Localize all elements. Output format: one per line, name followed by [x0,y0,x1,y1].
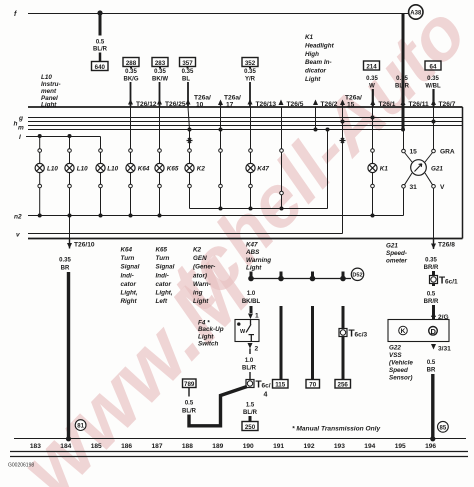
svg-text:(Gener-: (Gener- [193,264,215,271]
svg-text:K1: K1 [380,166,389,173]
instrument cluster internal area [14,107,463,239]
svg-text:G22: G22 [389,345,401,352]
svg-text:VSS: VSS [389,352,402,359]
junction n2 at L10 no2 [68,214,72,218]
svg-text:L10: L10 [47,166,58,173]
svg-text:81: 81 [77,424,84,430]
svg-text:m: m [18,125,24,132]
svg-text:Sensor): Sensor) [389,375,412,382]
bus line v [16,232,343,239]
svg-text:Left: Left [156,298,168,305]
terminal box 64 [425,61,441,70]
svg-text:K1: K1 [305,34,314,41]
terminal arrow T26/10 [67,239,95,249]
svg-text:0.35: 0.35 [366,76,378,82]
splice stub 1 [250,272,253,279]
lamp K65 symbol [155,163,179,172]
svg-text:190: 190 [243,443,254,450]
wire T26/5 column [280,107,284,209]
wire T26/11 to G21 pin 15 [403,130,405,150]
svg-text:GRA: GRA [440,149,455,156]
svg-text:cator: cator [121,281,137,288]
svg-text:K2: K2 [197,166,206,173]
svg-text:4: 4 [264,392,268,399]
lamp K2 column from T26a/10 [188,107,192,209]
terminal box 357 [180,58,196,67]
svg-text:L10: L10 [107,166,118,173]
junction link at spare pin [219,207,223,211]
spare pin column T26a/17 [219,107,223,209]
svg-text:115: 115 [275,381,286,388]
wire T26/7 to GRA pin [433,107,435,149]
lamp L10 no1 symbol [35,163,58,172]
svg-text:BL/R: BL/R [182,409,197,415]
terminal arrow T26a/17 [218,95,241,109]
svg-text:High: High [305,51,319,58]
wire 0.35 W/BL to T26/7 [425,76,441,107]
svg-text:Right: Right [121,298,138,305]
svg-text:85: 85 [440,425,447,431]
terminal arrow T26a/10 [186,95,212,109]
junction m2 at spare pin [219,128,223,132]
track baseline [14,438,466,440]
splice line to D52 [251,278,351,280]
wire 0.5 BR/R to G22 pin 2/G [424,284,439,320]
svg-text:BL/R: BL/R [93,47,108,53]
svg-text:Turn: Turn [121,255,135,262]
svg-text:0.35: 0.35 [244,69,256,75]
lamp K1 column from T26/1 [371,107,375,216]
svg-text:G00206198: G00206198 [8,463,34,469]
junction splice 3 [310,276,316,282]
G21 pin GRA [432,149,455,156]
asterisk on K2 wire [187,138,193,143]
svg-text:Turn: Turn [156,255,170,262]
svg-text:h: h [14,121,18,128]
splice stub 4 [342,272,345,279]
cluster bottom edge [28,238,463,240]
wire 0.35 BK/G to T26/12 [124,67,139,107]
svg-text:ment: ment [41,88,57,95]
wire n2 riser to pin 31 [403,188,405,216]
svg-text:BL: BL [182,76,190,82]
junction m2 at K2 [188,128,192,132]
wire 0.35 BK/W to T26/25 [152,67,168,107]
bus line l [19,134,101,141]
svg-text:cator: cator [156,281,172,288]
svg-text:V: V [440,184,445,191]
svg-text:1.0: 1.0 [245,358,254,364]
svg-text:T26/8: T26/8 [438,242,455,249]
svg-text:192: 192 [303,443,314,450]
junction on f at wire to 640 [97,10,102,15]
junction link at T26/5 [280,207,284,211]
bus line h [28,121,463,123]
svg-text:v: v [16,232,20,239]
svg-text:K: K [401,328,406,335]
svg-text:Signal: Signal [121,264,140,271]
svg-text:BR/R: BR/R [424,299,439,305]
junction h at T26/7 [432,120,436,124]
component label L10 Instrument Panel Light [41,74,61,109]
svg-text:T26a/: T26a/ [345,95,362,102]
svg-text:1: 1 [255,313,259,320]
wire 0.35 BR ground run to G81 [59,258,71,442]
svg-text:288: 288 [126,60,137,67]
svg-text:n2: n2 [14,214,22,221]
ground point 85 [438,421,449,432]
sensor G22 box [388,320,449,342]
terminal box 640 [92,62,109,71]
junction g at K1 [371,116,375,120]
svg-text:ABS: ABS [245,249,260,256]
track numbers [30,443,437,450]
svg-text:Headlight: Headlight [305,42,335,49]
svg-text:250: 250 [245,424,256,431]
svg-text:214: 214 [366,63,377,70]
svg-text:6c/1: 6c/1 [445,279,458,286]
svg-text:GEN: GEN [193,255,207,262]
wire 0.35 W to T26/1 [366,76,378,107]
terminal box 250 [242,422,258,431]
svg-text:70: 70 [309,381,316,388]
terminal box 352 [242,58,258,67]
terminal arrow T26/12 [128,99,157,108]
svg-text:K2: K2 [193,247,202,254]
connector A38 [409,5,423,19]
terminal arrow T26/1 [370,100,395,109]
asterisk on T26a/15 wire [340,138,346,143]
svg-text:Instru-: Instru- [41,81,61,88]
lamp K47 column from T26/13 [249,107,253,209]
svg-text:T26a/: T26a/ [194,95,211,102]
junction splice 2 [278,276,284,282]
component label F4 Back-Up Light Switch [198,319,224,347]
svg-text:Light,: Light, [121,290,138,297]
svg-text:g: g [18,115,23,122]
lamp K65 column from T26/25 [158,107,162,216]
svg-text:2: 2 [255,346,259,353]
svg-text:196: 196 [425,443,436,450]
svg-text:64: 64 [430,63,437,70]
svg-text:0.5: 0.5 [427,292,436,298]
svg-text:184: 184 [60,443,71,450]
terminal box 288 [123,58,139,67]
terminal box 70 [306,380,320,389]
wire 1.5 BL/R to terminal 250 [243,403,258,422]
svg-text:0.5: 0.5 [185,401,194,407]
wire 0.35 Y/R to T26/13 [244,67,256,107]
junction splice 1 [248,276,254,282]
svg-text:Warning: Warning [246,257,271,264]
wire T26a/15 column to v [342,107,344,234]
svg-text:BR: BR [61,266,70,272]
svg-text:f: f [14,11,17,18]
terminal arrow T26/7 [431,100,456,109]
wire 0.35 BR/R to T6c/1 [424,258,439,276]
junction h at T26a/15 [341,120,345,124]
svg-text:15: 15 [410,149,418,156]
svg-text:dicator: dicator [305,68,327,75]
bus line n2 [14,214,404,221]
speedometer G21 symbol [405,153,444,185]
bus line g [28,117,463,119]
wire 0.35 BL/R from f to T26/11 (thick) [395,13,410,130]
junction splice 4 [340,276,346,282]
terminal arrow T26/5 [279,100,304,109]
svg-text:195: 195 [395,443,406,450]
splice stub 2 [280,272,283,279]
lower section [8,239,468,469]
terminal box 256 [335,380,351,389]
bottom rule lower [10,456,468,458]
svg-text:W: W [240,329,246,335]
svg-text:BL/R: BL/R [395,84,410,90]
svg-text:D: D [430,327,436,336]
svg-text:187: 187 [151,443,162,450]
component label K47 ABS Warning Light [245,242,271,272]
svg-text:Light: Light [305,76,321,83]
wire 1.0 BL/R to T6c/4 [242,349,257,380]
svg-text:L10: L10 [41,74,52,81]
wire 1.0 BK/BL to F4 pin 1 [242,291,261,320]
svg-text:Light: Light [193,298,209,305]
G21 pin 15 [402,149,417,156]
svg-text:Speed-: Speed- [386,250,407,257]
junction m2 at T26/11 [401,128,405,132]
svg-text:789: 789 [184,381,195,388]
svg-text:K64: K64 [138,166,150,173]
svg-text:193: 193 [334,443,345,450]
svg-text:L10: L10 [77,166,88,173]
wire 0.5 BL/R from 789 [182,388,197,415]
svg-text:194: 194 [364,443,375,450]
switch F4 box [235,320,259,342]
terminal box 789 [183,379,197,388]
svg-text:Beam In-: Beam In- [305,59,332,66]
svg-text:G21: G21 [431,166,443,173]
svg-text:Light: Light [198,333,214,340]
junction n2 at K1 [371,214,375,218]
svg-text:Back-Up: Back-Up [198,326,224,333]
lamp L10 no1 column [38,136,42,216]
svg-text:283: 283 [155,60,166,67]
wire 0.5 BK/BL to terminal 115 [280,306,283,380]
internal link line K47/T26-5 to m2 [190,130,328,209]
svg-text:Signal: Signal [156,264,175,271]
terminal box 283 [152,58,168,67]
lamp K64 column from T26/12 [129,107,133,216]
svg-text:1.5: 1.5 [246,403,255,409]
lamp K1 symbol [368,163,388,172]
connector T6c/4 [246,380,271,399]
lamp L10 no3 column (fed from l elbow) [99,137,103,216]
svg-text:640: 640 [95,64,106,71]
svg-text:BK/BL: BK/BL [242,299,261,305]
svg-text:189: 189 [212,443,223,450]
wire 0.5 BR to G85 [427,360,436,441]
junction l line at L10 no1 [38,134,42,138]
G22 pin 3/31 arrow [431,344,451,353]
svg-text:BK/G: BK/G [124,76,139,82]
svg-text:0.35: 0.35 [125,69,137,75]
lamp L10 no2 column (continues to T26/10) [68,136,72,239]
wire T6c/3 to terminal 256 [342,337,345,380]
svg-text:ometer: ometer [386,258,408,265]
lamp K47 symbol [246,163,269,172]
splice stub 3 [311,272,314,279]
svg-text:BL/R: BL/R [243,410,258,416]
terminal arrow T26/13 [248,99,277,108]
bus line m2 [28,129,403,131]
svg-text:0.35: 0.35 [396,76,408,82]
junction m2 at link riser [326,128,330,132]
G21 pin 31 [402,184,417,191]
svg-text:l: l [19,134,21,141]
connector T6c/1 [430,276,459,287]
terminal arrow T26/8 [431,239,455,250]
svg-text:Speed: Speed [389,367,408,374]
svg-text:0.35: 0.35 [59,258,71,264]
svg-text:6c/: 6c/ [262,383,271,390]
component label K1 Headlight High Beam Indicator Light [305,34,335,83]
svg-text:185: 185 [91,443,102,450]
wire T26/2 stub to m2 [315,107,317,130]
svg-text:ator): ator) [193,272,207,279]
svg-text:BK/W: BK/W [152,76,168,82]
terminal box 115 [273,380,289,389]
svg-text:K47: K47 [257,166,269,173]
svg-text:D52: D52 [352,273,362,279]
svg-text:Indi-: Indi- [156,272,169,279]
connector T6c/3 [339,329,368,340]
svg-text:357: 357 [182,60,193,67]
wire 789 run to T6c/4 [189,387,247,426]
junction link at K47 [249,207,253,211]
svg-text:0.5: 0.5 [427,360,436,366]
svg-text:K65: K65 [156,247,168,254]
wire 0.5 BL/R to terminal 640 [93,13,108,61]
terminal arrow T26/2 [313,100,338,109]
svg-text:256: 256 [338,381,349,388]
svg-text:K65: K65 [167,166,179,173]
wire 0.35 BL to T26a/10 [182,67,194,107]
F4 pin 2 arrow [248,343,259,353]
svg-text:Y/R: Y/R [245,76,256,82]
junction m2 at T26/2 [314,128,318,132]
svg-text:0.35: 0.35 [425,258,437,264]
svg-text:188: 188 [182,443,193,450]
terminal arrow T26a/15 [340,95,362,109]
ground point 81 [75,420,86,431]
component label G22 VSS Vehicle Speed Sensor [389,345,413,382]
svg-text:6c/3: 6c/3 [355,332,368,339]
lamp K64 symbol [126,163,150,172]
svg-text:ing: ing [193,290,203,297]
G21 pin V [432,184,445,191]
svg-text:31: 31 [410,184,418,191]
svg-text:W/BL: W/BL [425,84,441,90]
bottom rule upper [10,451,468,453]
wire 0.5 BK/BL to terminal 70 [311,306,314,380]
lamp L10 no3 symbol [96,163,119,172]
svg-text:BR/R: BR/R [424,265,439,271]
svg-text:Indi-: Indi- [121,272,134,279]
svg-text:(Vehicle: (Vehicle [389,360,413,367]
wire G21 V pin down to T26/8 [433,188,435,239]
cluster right edge [462,107,464,239]
component label K2 GEN Warning Light [193,247,215,306]
splice connector D52 [351,268,363,280]
svg-text:Warn-: Warn- [193,281,211,288]
junction n2 at L10 no1 [38,214,42,218]
svg-text:T26/10: T26/10 [74,242,95,249]
svg-text:* Manual Transmission Only: * Manual Transmission Only [292,426,381,433]
terminal arrow T26/25 [157,99,186,108]
junction n2 at K65 [158,214,162,218]
svg-text:BR: BR [427,368,436,374]
svg-text:Light: Light [246,265,262,272]
svg-text:T26a/: T26a/ [224,95,241,102]
svg-text:BL/R: BL/R [242,366,257,372]
cluster top edge [28,106,463,108]
lamp K2 symbol [185,163,205,172]
junction n2 at L10 no3 [99,214,103,218]
G22 pin 2/G arrow [431,312,449,322]
component label K64 Turn Signal Indicator Light Right [121,247,140,306]
wire f bus line [28,13,409,15]
svg-text:K47: K47 [246,242,258,249]
svg-text:186: 186 [121,443,132,450]
svg-text:K64: K64 [121,247,133,254]
component label K65 Turn Signal Indicator Light Left [156,247,175,306]
component label G21 Speedometer [386,243,408,265]
svg-text:W: W [369,84,375,90]
svg-text:0.35: 0.35 [154,69,166,75]
terminal arrow T26/11 [401,100,429,109]
svg-text:352: 352 [245,60,256,67]
svg-text:0.35: 0.35 [182,69,194,75]
junction n2 at K64 [129,214,133,218]
junction l line at L10 no2 [68,134,72,138]
bus line m [28,125,463,127]
svg-text:G21: G21 [386,243,398,250]
svg-text:183: 183 [30,443,41,450]
svg-text:Switch: Switch [198,341,218,348]
svg-text:0.35: 0.35 [427,76,439,82]
wire 1.5 BK/BL to T6c/3 [342,306,345,329]
svg-text:A38: A38 [410,10,422,16]
terminal box 214 [364,61,380,70]
lamp L10 no2 symbol [65,163,88,172]
svg-text:0.5: 0.5 [96,40,105,46]
svg-text:3/31: 3/31 [438,346,451,353]
svg-text:1.0: 1.0 [247,291,256,297]
svg-text:191: 191 [273,443,284,450]
svg-text:Light,: Light, [156,290,173,297]
